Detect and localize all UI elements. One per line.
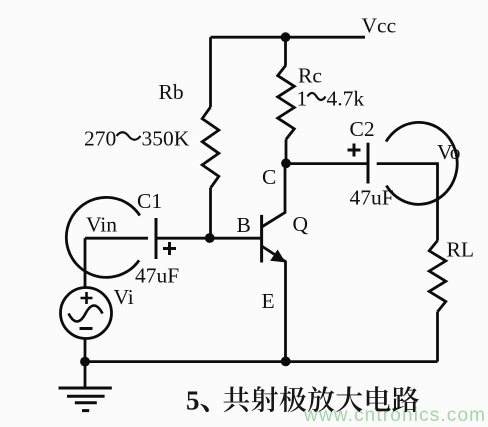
svg-text:Vi: Vi [114,285,134,309]
svg-text:C2: C2 [350,117,375,141]
svg-text:C1: C1 [137,189,162,213]
svg-text:350K: 350K [142,127,190,151]
node ground junction [80,357,90,367]
wire Vcc rail top [211,36,366,39]
ground [84,362,87,388]
svg-text:Vin: Vin [86,213,117,237]
caption 5、共射极放大电路 [186,386,419,416]
polarity + of C1 [163,242,176,255]
polarity + of Vi [81,292,93,304]
wire Vin down [84,238,87,288]
svg-text:Vcc: Vcc [362,14,397,38]
label Rb value 270~350K [84,127,190,151]
wire output [377,164,438,241]
svg-text:270: 270 [84,127,116,151]
svg-text:RL: RL [447,238,474,262]
polarity + of C2 [348,144,361,157]
svg-text:Q: Q [293,212,309,236]
label Rc value 1~4.7k [297,87,365,111]
node B junction [205,233,215,243]
sine symbol of Vi [69,306,103,322]
node Vo probe circle [386,122,457,204]
resistor Rc [284,37,287,65]
wire Vi to ground node [84,338,87,362]
svg-text:Rc: Rc [298,64,322,88]
svg-text:4.7k: 4.7k [327,87,365,111]
wire base [156,237,261,240]
source Vi circle [61,288,112,339]
transistor Q1 [262,163,286,361]
capacitor C2 [286,162,367,165]
node Vin probe circle [66,197,139,277]
node C junction [281,158,291,168]
svg-text:Rb: Rb [159,80,184,104]
capacitor C1 [85,237,148,240]
svg-text:E: E [262,289,275,313]
svg-text:47uF: 47uF [135,264,179,288]
svg-text:B: B [237,213,251,237]
node E junction [281,357,291,367]
svg-text:C: C [262,165,276,189]
resistor Rb [209,37,212,107]
polarity - of Vi [80,327,93,330]
svg-text:1: 1 [297,87,308,111]
node Vcc junction [281,32,291,42]
wire bottom rail [85,360,438,363]
resistor RL [429,241,446,312]
svg-text:5: 5 [186,386,200,416]
svg-text:Vo: Vo [437,140,461,164]
